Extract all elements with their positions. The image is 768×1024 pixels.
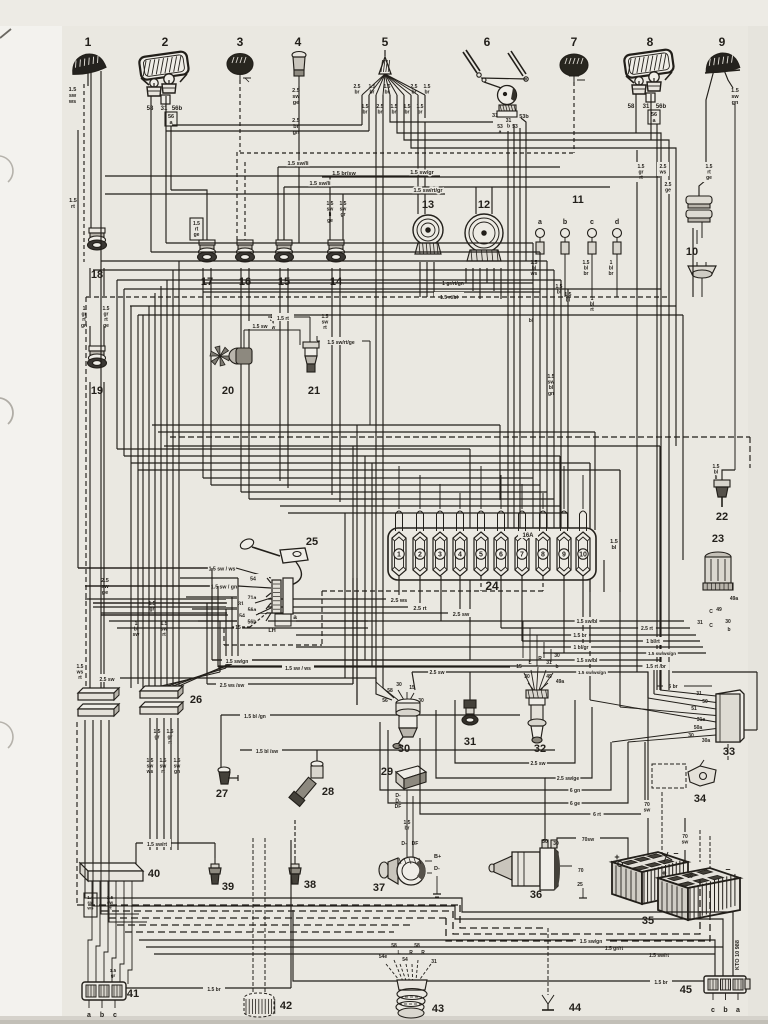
svg-text:1.5 sw/rt/ge: 1.5 sw/rt/ge <box>327 340 354 346</box>
svg-text:49a: 49a <box>730 596 739 602</box>
svg-text:8: 8 <box>647 35 654 49</box>
svg-text:rt: rt <box>78 675 82 681</box>
wire 1.5 br to 41 <box>126 840 291 993</box>
bottom dashed bundle <box>77 880 710 941</box>
battery dashes <box>662 744 728 880</box>
svg-text:b: b <box>100 1012 104 1019</box>
svg-text:6: 6 <box>499 552 503 559</box>
bulb holder 17 <box>198 240 217 288</box>
svg-text:50: 50 <box>687 874 693 880</box>
svg-text:–: – <box>725 864 730 874</box>
connector 10 <box>686 196 712 258</box>
svg-text:51: 51 <box>691 706 697 712</box>
svg-text:br: br <box>425 90 430 96</box>
wires relay 40 to connector 41 <box>88 892 132 984</box>
svg-text:3: 3 <box>438 552 442 559</box>
connector 41 <box>82 982 139 1019</box>
svg-text:R: R <box>538 656 542 662</box>
svg-text:40: 40 <box>148 868 160 880</box>
bulb holder 19 <box>88 346 107 397</box>
svg-text:4: 4 <box>458 552 462 559</box>
svg-text:rt: rt <box>161 769 165 775</box>
device 29 <box>381 766 426 810</box>
svg-text:1.5 sw/gn: 1.5 sw/gn <box>580 939 603 945</box>
bottom labelled buses <box>123 898 733 986</box>
svg-text:b: b <box>727 627 730 633</box>
svg-text:ge: ge <box>665 188 671 194</box>
svg-text:39: 39 <box>222 881 234 893</box>
label block 1.5 sw ws <box>66 84 79 110</box>
label 1.5 sw gn (wire 9) <box>729 86 742 112</box>
svg-text:+: + <box>614 852 619 862</box>
svg-text:br: br <box>385 90 390 96</box>
wires below left stack <box>77 720 109 905</box>
svg-text:58: 58 <box>628 104 635 110</box>
flasher switch 32 <box>516 621 564 755</box>
battery feed wires 70 sw <box>641 672 692 874</box>
svg-text:gn: gn <box>174 769 180 775</box>
svg-text:br: br <box>392 110 397 116</box>
lower labelled buses <box>207 568 555 755</box>
svg-text:a: a <box>736 1007 740 1014</box>
svg-text:34: 34 <box>694 793 707 805</box>
horn 12 wires <box>466 187 501 299</box>
fuse box lower exits <box>85 576 583 653</box>
svg-text:sw: sw <box>644 808 651 814</box>
svg-text:25: 25 <box>577 882 583 888</box>
fuse box 24 <box>388 528 596 593</box>
svg-text:27: 27 <box>216 788 228 800</box>
svg-text:21: 21 <box>308 385 320 397</box>
svg-text:B+: B+ <box>434 854 441 860</box>
labelled wires (1.5 sw/li, 1.5 br/sw, 1.5 sw/gr) <box>105 161 660 240</box>
svg-text:br: br <box>405 110 410 116</box>
svg-text:br: br <box>378 110 383 116</box>
svg-text:C: C <box>709 609 713 615</box>
svg-text:31: 31 <box>492 113 498 119</box>
right vertical feeders <box>533 243 683 707</box>
svg-text:1.5 sw: 1.5 sw <box>252 324 267 330</box>
scan mark top-left corner <box>0 29 11 38</box>
switch 28 <box>289 750 334 806</box>
svg-text:1.5 br: 1.5 br <box>573 633 586 639</box>
svg-text:15: 15 <box>409 685 415 691</box>
svg-text:2.5 sw: 2.5 sw <box>453 612 470 618</box>
svg-text:1 bl/rt: 1 bl/rt <box>646 639 660 645</box>
wires below 26 <box>146 718 181 850</box>
svg-text:b: b <box>723 1007 727 1014</box>
svg-text:6 br: 6 br <box>668 684 677 690</box>
svg-text:6 gn: 6 gn <box>570 788 580 794</box>
svg-text:sw: sw <box>133 632 140 638</box>
svg-text:2.5 sw/ge: 2.5 sw/ge <box>557 776 579 782</box>
wire 1.5 sw/rt <box>136 839 215 866</box>
svg-text:9: 9 <box>562 552 566 559</box>
svg-text:1.5 sw / ws: 1.5 sw / ws <box>285 666 311 672</box>
svg-text:5: 5 <box>479 552 483 559</box>
label 1.5 ws rt <box>76 664 84 681</box>
svg-text:15: 15 <box>516 664 522 670</box>
svg-text:10: 10 <box>686 246 698 258</box>
svg-text:sw: sw <box>69 93 77 99</box>
svg-text:ws: ws <box>68 99 76 105</box>
svg-text:58: 58 <box>391 943 397 949</box>
svg-text:1.5 sw/li: 1.5 sw/li <box>287 161 309 167</box>
label 4 <box>295 35 302 49</box>
svg-text:ws: ws <box>530 271 538 277</box>
svg-text:rt: rt <box>590 307 594 313</box>
relay plate 40 <box>80 863 160 892</box>
svg-text:gr: gr <box>155 735 160 741</box>
svg-text:+: + <box>661 868 666 878</box>
fan switch 20 <box>210 313 310 397</box>
svg-text:58: 58 <box>414 943 420 949</box>
labels above 14 <box>327 201 347 224</box>
hole punch middle <box>0 398 13 424</box>
svg-text:9: 9 <box>719 35 726 49</box>
svg-text:2.5 sw: 2.5 sw <box>99 677 114 683</box>
svg-text:31: 31 <box>643 104 650 110</box>
switch 27 <box>216 715 238 800</box>
label 8 <box>647 35 654 49</box>
svg-text:53: 53 <box>512 124 518 130</box>
ignition switch 30 <box>376 682 424 755</box>
column switch 43 <box>379 943 444 1018</box>
svg-text:2.5 sw: 2.5 sw <box>530 761 545 767</box>
svg-text:56: 56 <box>382 698 388 704</box>
label 1.5 gr <box>110 968 117 978</box>
svg-text:1.5 bl /gn: 1.5 bl /gn <box>244 714 266 720</box>
svg-text:1.5 rt: 1.5 rt <box>277 316 289 322</box>
svg-text:6: 6 <box>484 35 491 49</box>
hole punch lower <box>0 722 13 748</box>
svg-text:7: 7 <box>520 552 524 559</box>
terminal labels 58 31 56b (headlight 2) <box>147 106 183 126</box>
svg-text:49: 49 <box>716 607 722 613</box>
svg-text:b: b <box>555 664 558 670</box>
svg-text:38: 38 <box>304 879 316 891</box>
svg-text:1: 1 <box>397 552 401 559</box>
svg-text:D-: D- <box>401 841 407 847</box>
capacitor below 10 <box>688 222 716 297</box>
label 9 <box>719 35 726 49</box>
label 6 <box>484 35 491 49</box>
svg-text:33: 33 <box>723 746 735 758</box>
left vertical feeders <box>86 280 138 690</box>
svg-text:1: 1 <box>85 35 92 49</box>
svg-text:7: 7 <box>571 35 578 49</box>
terminal labels 58 31 56b (headlight 8) <box>628 104 667 124</box>
svg-text:rt: rt <box>323 325 327 331</box>
svg-text:rt: rt <box>162 632 166 638</box>
connector 31b <box>462 672 478 748</box>
svg-text:br: br <box>584 271 589 277</box>
sender 38 (dashed feed) <box>289 820 316 891</box>
relay 33 terminal fan <box>590 684 716 744</box>
svg-text:rt: rt <box>71 204 75 210</box>
wires into label fan 25 <box>78 130 228 615</box>
svg-text:2.5 rt: 2.5 rt <box>641 626 653 632</box>
mid bus bundle <box>117 425 660 690</box>
label 2.5 sw ge / 2.5 br gn (wire 4) <box>290 86 303 142</box>
svg-text:1.5: 1.5 <box>69 198 77 204</box>
fuse box feed stubs <box>396 466 605 592</box>
svg-text:b: b <box>507 124 510 130</box>
svg-text:a: a <box>87 1012 91 1019</box>
svg-text:56b: 56b <box>172 106 183 112</box>
svg-text:31: 31 <box>161 106 168 112</box>
svg-text:54e: 54e <box>379 954 388 960</box>
svg-text:43: 43 <box>432 1003 444 1015</box>
svg-text:58: 58 <box>147 106 154 112</box>
plug 4 <box>292 52 306 87</box>
svg-text:b: b <box>563 219 567 226</box>
svg-text:29: 29 <box>381 766 393 778</box>
svg-text:30: 30 <box>396 682 402 688</box>
label 5 <box>382 35 389 49</box>
svg-text:35: 35 <box>642 915 654 927</box>
label 2.5 sw ge left <box>101 578 109 596</box>
labels below 15 and 14 <box>269 314 329 331</box>
svg-text:3: 3 <box>237 35 244 49</box>
svg-text:16A: 16A <box>522 533 534 539</box>
svg-text:31: 31 <box>697 620 703 626</box>
svg-text:30: 30 <box>554 653 560 659</box>
svg-text:1.5 sw/li: 1.5 sw/li <box>309 181 331 187</box>
label 7 <box>571 35 578 49</box>
svg-text:50: 50 <box>542 839 548 845</box>
horn 12 <box>465 199 503 261</box>
svg-text:56: 56 <box>651 112 657 118</box>
relay 33 <box>716 690 744 758</box>
wire drops upper area <box>84 70 735 690</box>
svg-text:44: 44 <box>569 1002 582 1014</box>
horn 7 (dark ball) <box>560 54 588 82</box>
svg-text:–: – <box>673 848 678 858</box>
label 2 <box>162 35 169 49</box>
svg-text:6 ge: 6 ge <box>570 801 580 807</box>
svg-text:30: 30 <box>725 619 731 625</box>
label 1.5 rt ge (wire 17) <box>190 218 203 240</box>
svg-text:31: 31 <box>464 736 476 748</box>
fan-to-26 link wires <box>161 578 238 686</box>
svg-text:1.5 sw/rt: 1.5 sw/rt <box>147 842 167 848</box>
svg-text:bl: bl <box>612 545 617 551</box>
horn 3 (dark ball) <box>227 54 253 83</box>
svg-text:2.5 ws /sw: 2.5 ws /sw <box>220 683 245 689</box>
dashed wire y437 <box>170 437 750 468</box>
svg-text:sw: sw <box>101 584 109 590</box>
svg-text:br: br <box>609 271 614 277</box>
svg-text:R: R <box>409 950 413 956</box>
svg-text:26: 26 <box>190 694 202 706</box>
label 1.5 rt (wire 18) <box>67 196 80 210</box>
lamp 9 (front indicator right) <box>704 51 740 75</box>
svg-text:br: br <box>412 90 417 96</box>
svg-text:gr: gr <box>111 973 116 978</box>
svg-text:sw: sw <box>682 840 689 846</box>
main bus bundle <box>86 243 683 315</box>
svg-text:gn: gn <box>548 391 554 397</box>
svg-text:ws: ws <box>146 769 154 775</box>
headlight 2 (left) <box>139 51 190 104</box>
headlight 8 (right) <box>624 49 675 102</box>
wire 2.5 sw to 30 <box>94 674 392 700</box>
svg-text:1.5 sw/bl: 1.5 sw/bl <box>577 658 598 664</box>
svg-text:1.5 rt/bl: 1.5 rt/bl <box>440 295 458 301</box>
feeders of connector 26 <box>143 261 179 688</box>
svg-text:1.5 sw/gr: 1.5 sw/gr <box>410 170 434 176</box>
svg-text:30a: 30a <box>702 738 711 744</box>
connector 45 <box>680 976 750 1014</box>
svg-text:28: 28 <box>322 786 334 798</box>
svg-text:20: 20 <box>222 385 234 397</box>
labels below 40 <box>84 893 114 917</box>
svg-text:54: 54 <box>250 577 256 583</box>
terminal labels wiper 6 <box>492 113 529 136</box>
vertical labels right side <box>529 292 720 481</box>
ground 44 <box>542 928 582 1014</box>
left feeders to bottom buses <box>85 862 147 922</box>
svg-text:c: c <box>711 1007 715 1014</box>
bulb holder 14 <box>327 240 346 288</box>
svg-text:ge: ge <box>194 232 200 238</box>
svg-text:70sw: 70sw <box>582 837 594 843</box>
svg-text:bl: bl <box>566 298 571 304</box>
svg-text:30: 30 <box>553 841 559 847</box>
bulb holder 15 <box>275 240 294 288</box>
svg-text:1.5 br: 1.5 br <box>654 980 667 986</box>
svg-text:1.5: 1.5 <box>69 87 77 93</box>
svg-text:1.5 sw/ws/gn: 1.5 sw/ws/gn <box>578 670 606 675</box>
ignition switch 25 <box>239 536 318 634</box>
bulb sockets 11 a-d <box>536 194 622 297</box>
svg-text:gr: gr <box>150 607 155 613</box>
svg-text:6 rt: 6 rt <box>593 812 601 818</box>
svg-text:31: 31 <box>431 959 437 965</box>
svg-text:R: R <box>421 950 425 956</box>
svg-text:37: 37 <box>373 882 385 894</box>
svg-text:rt: rt <box>639 175 643 181</box>
svg-text:1 gr/rt/gn: 1 gr/rt/gn <box>442 281 464 287</box>
svg-text:sw: sw <box>731 94 739 100</box>
svg-text:br: br <box>355 90 360 96</box>
bracket 34 <box>652 760 716 805</box>
svg-text:1.5 sw / gn: 1.5 sw / gn <box>211 585 237 591</box>
svg-text:L: L <box>397 950 400 956</box>
svg-text:1.5 sw / ws: 1.5 sw / ws <box>209 567 236 573</box>
svg-text:a: a <box>293 614 297 621</box>
svg-text:12: 12 <box>478 199 490 211</box>
sender 39 <box>209 843 234 893</box>
lower-right labelled buses <box>380 672 757 840</box>
label 1.5 bl right of fuse box <box>610 539 618 551</box>
svg-text:53b: 53b <box>519 114 529 120</box>
svg-text:25: 25 <box>306 536 318 548</box>
svg-text:56: 56 <box>168 114 174 120</box>
marking KTO 10 988 <box>735 940 741 970</box>
svg-text:2: 2 <box>418 552 422 559</box>
svg-text:23: 23 <box>712 533 724 545</box>
svg-text:br: br <box>370 90 375 96</box>
svg-text:D-: D- <box>434 866 440 872</box>
svg-text:br: br <box>363 110 368 116</box>
svg-text:10: 10 <box>579 552 587 559</box>
svg-text:1 bl/gr: 1 bl/gr <box>573 645 588 651</box>
svg-text:1.5: 1.5 <box>731 88 739 94</box>
ignition coil 36 <box>489 840 587 901</box>
labelled buses right of fuse box <box>212 617 706 698</box>
regulator 23 <box>703 533 733 590</box>
svg-text:41: 41 <box>127 988 139 1000</box>
sensor 22 <box>714 470 735 523</box>
svg-text:22: 22 <box>716 511 728 523</box>
bulb holder 16 <box>236 240 255 288</box>
hole punch top <box>0 156 13 182</box>
svg-text:70: 70 <box>578 868 584 874</box>
svg-text:2.5: 2.5 <box>101 578 109 584</box>
svg-text:ge: ge <box>293 100 299 106</box>
connector stack 26 <box>140 686 202 714</box>
svg-text:30: 30 <box>398 743 410 755</box>
svg-text:42: 42 <box>280 1000 292 1012</box>
svg-text:1.5: 1.5 <box>610 539 618 545</box>
svg-text:1.5 sw/bl: 1.5 sw/bl <box>577 619 598 625</box>
svg-text:KTO 10 988: KTO 10 988 <box>735 940 741 970</box>
labels left of 19 <box>81 306 110 329</box>
svg-text:1.5 br: 1.5 br <box>207 987 220 993</box>
lamp 1 (front indicator left) <box>69 51 106 86</box>
loom 5 fan-out <box>362 50 425 95</box>
svg-text:45: 45 <box>680 984 692 996</box>
loom 5 wire labels <box>354 84 431 116</box>
svg-text:bl: bl <box>529 318 534 324</box>
labels above 26 <box>133 601 168 638</box>
svg-text:a: a <box>538 219 542 226</box>
svg-text:ge: ge <box>706 175 712 181</box>
socket drop wires <box>203 268 340 502</box>
switch 25 terminal label fan <box>78 564 271 631</box>
svg-text:rt: rt <box>168 740 172 746</box>
labels under 11 <box>530 260 614 296</box>
labels right verticals <box>635 162 715 194</box>
svg-text:2.5 ws: 2.5 ws <box>391 598 408 604</box>
connector stack left <box>78 688 119 716</box>
horn 13 wires + label 1 gr/rt/gn <box>203 262 540 297</box>
label 1 <box>85 35 92 49</box>
svg-text:1.5 sw/rt/gr: 1.5 sw/rt/gr <box>413 188 443 194</box>
svg-text:8: 8 <box>541 552 545 559</box>
svg-text:1.5 bl /sw: 1.5 bl /sw <box>256 749 278 755</box>
svg-text:36: 36 <box>530 889 542 901</box>
centre verticals <box>353 578 357 705</box>
svg-text:32: 32 <box>534 743 546 755</box>
svg-text:c: c <box>113 1012 117 1019</box>
svg-text:c: c <box>590 219 594 226</box>
svg-text:30: 30 <box>688 733 694 739</box>
svg-text:54: 54 <box>402 957 408 963</box>
svg-text:1.5 rt /br: 1.5 rt /br <box>646 664 666 670</box>
svg-text:ge: ge <box>102 590 108 596</box>
svg-text:LH: LH <box>268 628 275 634</box>
labels near 23 <box>697 596 738 633</box>
svg-text:5: 5 <box>382 35 389 49</box>
label 3 <box>237 35 244 49</box>
bulb holder 18 <box>88 228 107 281</box>
verticals left of fuse box <box>345 425 372 705</box>
svg-text:50: 50 <box>702 699 708 705</box>
buses 2.5 ge / 2.5 gr <box>109 621 368 628</box>
